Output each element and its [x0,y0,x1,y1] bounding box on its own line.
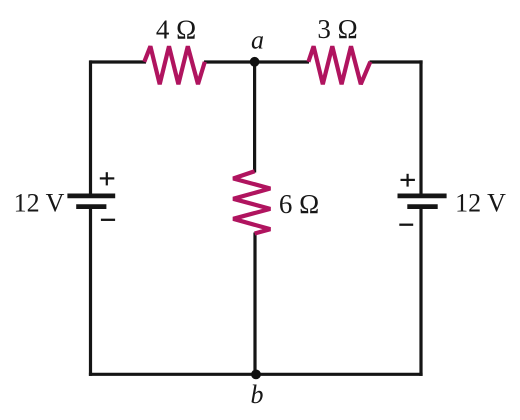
wire middle vertical lower (6-ohm resistor to node b) [253,233,256,375]
svg-text:12 V: 12 V [14,189,65,218]
svg-text:a: a [251,25,264,54]
svg-text:b: b [251,380,264,409]
battery V2 minus sign [399,224,413,226]
node a junction dot [250,57,260,67]
resistor R2 3-ohm zigzag [308,46,370,84]
svg-text:12 V: 12 V [455,189,506,218]
wire middle vertical upper (node a to 6-ohm resistor) [253,62,256,173]
svg-text:6 Ω: 6 Ω [279,189,319,219]
battery V1 plus sign [100,172,115,185]
resistor R1 4-ohm zigzag [144,46,205,84]
battery V1 left: short (-) plate [76,204,106,209]
wire left vertical upper (to battery + plate) [89,60,92,194]
battery V2 right: short (-) plate [407,204,437,209]
battery V1 left: long (+) plate [67,193,115,198]
resistor R3 6-ohm zigzag (vertical) [233,171,270,233]
svg-text:3 Ω: 3 Ω [317,14,357,44]
wire right vertical upper (to battery + plate) [419,60,422,194]
battery V2 right: long (+) plate [398,193,447,198]
svg-text:4 Ω: 4 Ω [156,14,196,44]
node b junction dot [251,370,261,380]
wire top-right segment [370,60,423,63]
wire top-left segment [90,60,146,63]
wire top-middle segment through node a [204,60,309,63]
battery V1 minus sign [101,219,115,221]
wire bottom through node b [89,373,423,376]
wire right vertical lower (from battery - plate) [419,208,422,376]
battery V2 plus sign [401,174,415,187]
wire left vertical lower (from battery - plate) [89,208,92,376]
